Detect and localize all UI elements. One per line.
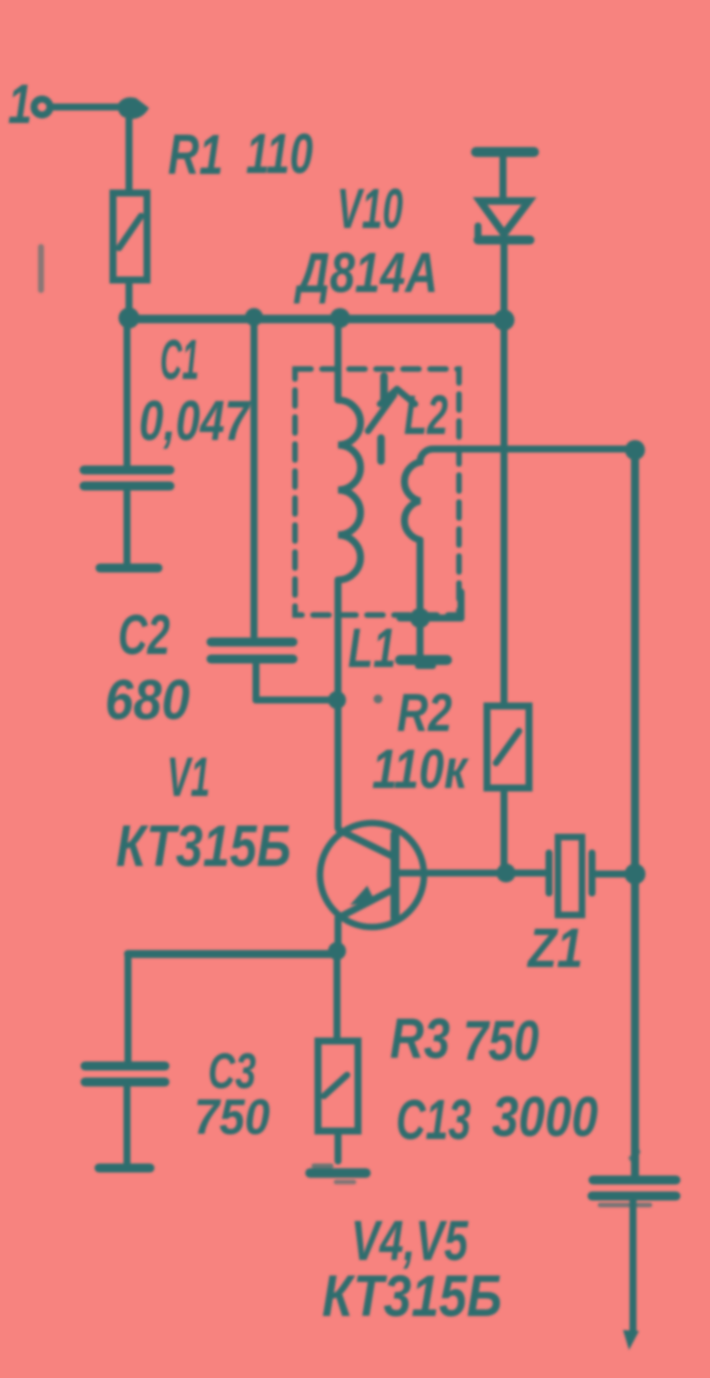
svg-text:R1: R1 — [168, 123, 223, 187]
transformer core box dashed — [295, 369, 459, 615]
wire node A to R1 — [126, 108, 133, 193]
svg-text:Z1: Z1 — [526, 916, 583, 979]
capacitor C3 — [85, 1066, 165, 1163]
core dashes — [381, 376, 384, 461]
svg-text:L1: L1 — [348, 616, 396, 679]
wire base to Z1 — [396, 870, 546, 877]
svg-text:3000: 3000 — [492, 1085, 598, 1149]
wire emitter rail — [128, 954, 337, 1062]
wire zener junction to R2 — [501, 318, 508, 706]
inductor L2 — [404, 449, 635, 617]
wire right rail — [631, 450, 639, 1176]
junction top rail C2 — [245, 308, 263, 326]
junction top rail left — [119, 308, 140, 329]
resistor R2 — [487, 706, 529, 872]
inductor L1 — [338, 318, 361, 700]
svg-text:L2: L2 — [404, 383, 448, 446]
junction top rail L1 — [330, 308, 350, 328]
svg-text:V10: V10 — [337, 177, 403, 241]
svg-text:V1: V1 — [167, 745, 210, 808]
label R1 110 — [168, 122, 313, 187]
svg-text:750: 750 — [194, 1089, 270, 1145]
svg-text:110к: 110к — [372, 737, 469, 800]
junction node A — [118, 97, 149, 119]
ground C1 — [100, 564, 158, 573]
svg-text:КТ315Б: КТ315Б — [116, 814, 291, 879]
junction top rail zener — [494, 310, 515, 331]
wire L2 to right rail junction — [625, 440, 645, 460]
ground L2 — [400, 618, 447, 666]
junction Z1 right rail — [625, 864, 646, 885]
terminal input — [34, 99, 50, 115]
ground R3 — [310, 1166, 366, 1182]
transistor V1 — [320, 700, 424, 950]
junction base R2 — [497, 864, 516, 883]
svg-text:0,047: 0,047 — [139, 389, 251, 453]
svg-text:750: 750 — [463, 1009, 539, 1073]
svg-text:КТ315Б: КТ315Б — [322, 1264, 502, 1329]
wire top rail — [127, 315, 505, 324]
speck — [374, 695, 383, 704]
junction L2 bottom — [400, 592, 461, 628]
svg-text:C1: C1 — [160, 328, 199, 392]
junction emitter — [328, 942, 346, 960]
svg-text:R2: R2 — [397, 683, 452, 743]
capacitor C1 — [84, 318, 170, 564]
resistor R1 — [113, 193, 147, 280]
capacitor C2 — [211, 318, 337, 700]
svg-text:R3: R3 — [390, 1007, 450, 1071]
capacitor C13 — [592, 1145, 676, 1350]
svg-text:Д814A: Д814A — [293, 241, 438, 305]
wire R1 to top rail — [126, 280, 133, 318]
wire terminal to node A — [51, 104, 126, 111]
ground C3 — [99, 1164, 150, 1173]
resistor R3 — [318, 951, 358, 1161]
crystal Z1 — [549, 837, 634, 915]
zener diode V10 — [476, 152, 534, 318]
label R3 750 — [390, 1007, 539, 1073]
svg-text:680: 680 — [105, 668, 190, 732]
label C13 3000 — [396, 1085, 598, 1152]
junction L1 bottom — [328, 691, 346, 709]
svg-text:110: 110 — [246, 122, 313, 186]
svg-text:1: 1 — [8, 72, 32, 135]
svg-text:C2: C2 — [118, 603, 170, 667]
tuning arrow — [368, 389, 415, 431]
smudge left edge — [38, 247, 44, 290]
svg-text:C13: C13 — [396, 1088, 471, 1152]
